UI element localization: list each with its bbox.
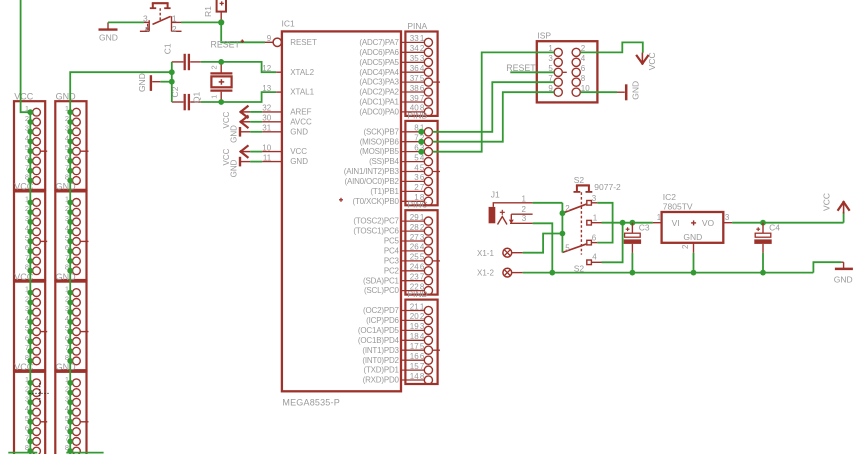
wire ISP pin5 RESET bbox=[510, 71, 554, 73]
svg-text:5: 5 bbox=[565, 244, 570, 253]
pin header PINA bbox=[401, 21, 440, 116]
svg-text:2: 2 bbox=[522, 205, 527, 214]
svg-text:GND: GND bbox=[834, 274, 853, 284]
svg-text:RESET: RESET bbox=[290, 38, 317, 47]
label GND (pin 11) bbox=[229, 159, 238, 177]
svg-text:IC2: IC2 bbox=[663, 192, 677, 202]
svg-text:(OC1B)PD4: (OC1B)PD4 bbox=[358, 336, 400, 345]
svg-text:XTAL1: XTAL1 bbox=[290, 88, 314, 97]
svg-text:(INT0)PD2: (INT0)PD2 bbox=[362, 356, 399, 365]
svg-text:(SCL)PC0: (SCL)PC0 bbox=[364, 286, 400, 295]
svg-text:3: 3 bbox=[725, 213, 730, 222]
svg-text:(ADC3)PA3: (ADC3)PA3 bbox=[359, 78, 399, 87]
terminal X1-1 bbox=[503, 248, 523, 257]
svg-text:GND: GND bbox=[229, 159, 238, 177]
svg-text:PINA: PINA bbox=[407, 21, 427, 31]
svg-text:2: 2 bbox=[210, 65, 219, 69]
svg-text:3: 3 bbox=[548, 54, 553, 63]
svg-text:27: 27 bbox=[410, 233, 419, 242]
pin header PINB bbox=[401, 110, 440, 205]
svg-text:XTAL2: XTAL2 bbox=[290, 68, 314, 77]
wire ground rail bbox=[523, 262, 842, 272]
svg-text:(ADC5)PA5: (ADC5)PA5 bbox=[359, 58, 399, 67]
wire C2 to Q1 bottom / XTAL1 bbox=[201, 92, 276, 102]
svg-text:14: 14 bbox=[410, 372, 419, 381]
svg-text:36: 36 bbox=[410, 64, 419, 73]
node XTAL1 junction bbox=[218, 99, 224, 105]
wire J1 pin1 to S2 pin2 bbox=[533, 203, 563, 213]
svg-text:1: 1 bbox=[522, 194, 527, 203]
svg-text:4: 4 bbox=[592, 253, 597, 262]
svg-text:19: 19 bbox=[410, 322, 419, 331]
svg-text:AREF: AREF bbox=[290, 108, 311, 117]
svg-text:39: 39 bbox=[410, 94, 419, 103]
svg-text:(RXD)PD0: (RXD)PD0 bbox=[363, 376, 400, 385]
svg-text:20: 20 bbox=[410, 312, 419, 321]
svg-text:GND: GND bbox=[229, 125, 238, 143]
svg-text:5: 5 bbox=[414, 153, 419, 162]
svg-text:3: 3 bbox=[592, 194, 597, 203]
label X1-1 bbox=[477, 249, 494, 258]
svg-text:9077-2: 9077-2 bbox=[594, 182, 621, 192]
label GND (pin 31) bbox=[229, 125, 238, 143]
svg-text:GND: GND bbox=[56, 272, 77, 282]
pin header PIND bbox=[401, 289, 440, 384]
node S2 pin2 junction bbox=[560, 210, 566, 216]
label IC2 bbox=[663, 192, 677, 202]
node VI net junction A bbox=[620, 220, 626, 226]
svg-text:C1: C1 bbox=[163, 43, 173, 54]
wire S2 common vertical (pins 2-5) bbox=[561, 213, 563, 252]
svg-text:33: 33 bbox=[410, 34, 419, 43]
svg-text:18: 18 bbox=[410, 332, 419, 341]
node XTAL2 junction bbox=[218, 59, 224, 65]
svg-text:29: 29 bbox=[410, 213, 419, 222]
svg-text:C3: C3 bbox=[639, 223, 650, 233]
ground GND at pin 11 bbox=[240, 157, 282, 167]
IC1 pin 9 RESET stub bbox=[265, 38, 281, 46]
svg-text:35: 35 bbox=[410, 54, 419, 63]
svg-text:21: 21 bbox=[410, 302, 419, 311]
IC1 pin 13 stub bbox=[276, 91, 282, 93]
value 7805TV bbox=[663, 202, 693, 212]
terminal X1-2 bbox=[503, 268, 523, 277]
pin header PINC bbox=[401, 200, 440, 295]
svg-text:PC2: PC2 bbox=[384, 266, 400, 275]
svg-text:X1-2: X1-2 bbox=[477, 269, 494, 278]
wire VO net to VCC bbox=[732, 212, 844, 223]
svg-text:1: 1 bbox=[657, 213, 662, 222]
label VCC (pin 32) bbox=[222, 111, 231, 128]
svg-text:2: 2 bbox=[681, 244, 690, 249]
svg-text:VO: VO bbox=[702, 218, 715, 228]
svg-text:IC1: IC1 bbox=[282, 19, 296, 29]
capacitor C2 bbox=[170, 86, 201, 110]
wire C1 to Q1 top / XTAL2 bbox=[201, 62, 276, 72]
node RESET junction bbox=[218, 19, 224, 25]
ground GND (power rail) bbox=[834, 262, 853, 284]
svg-text:(OC1A)PD5: (OC1A)PD5 bbox=[358, 326, 400, 335]
net label RESET bbox=[211, 40, 245, 50]
svg-text:(ADC6)PA6: (ADC6)PA6 bbox=[359, 48, 399, 57]
wire ISP pin2 to VCC bbox=[580, 42, 643, 52]
svg-text:7805TV: 7805TV bbox=[663, 202, 693, 212]
svg-text:GND: GND bbox=[56, 182, 77, 192]
svg-text:26: 26 bbox=[410, 243, 419, 252]
pushbutton S1 bbox=[140, 3, 182, 34]
svg-text:1: 1 bbox=[172, 13, 177, 23]
svg-text:(INT1)PD3: (INT1)PD3 bbox=[362, 346, 399, 355]
svg-text:C4: C4 bbox=[769, 223, 780, 233]
svg-text:2: 2 bbox=[414, 183, 419, 192]
svg-text:PINC: PINC bbox=[407, 200, 427, 210]
svg-text:15: 15 bbox=[410, 362, 419, 371]
svg-text:24: 24 bbox=[410, 263, 419, 272]
svg-text:GND: GND bbox=[99, 33, 118, 43]
svg-text:4: 4 bbox=[414, 163, 419, 172]
svg-text:17: 17 bbox=[410, 342, 419, 351]
wire C1-C2 left vertical bbox=[171, 62, 173, 102]
capacitor C3 bbox=[624, 223, 650, 273]
pin header ISP bbox=[537, 30, 598, 102]
svg-text:1: 1 bbox=[593, 214, 598, 223]
pin header GND block 1 bbox=[55, 91, 88, 189]
wire S2 pin3 to pin6 bbox=[591, 203, 612, 243]
svg-text:(ICP)PD6: (ICP)PD6 bbox=[366, 316, 399, 325]
svg-text:(TXD)PD1: (TXD)PD1 bbox=[364, 366, 400, 375]
pin header VCC block 3 bbox=[14, 272, 47, 370]
wire S1 pin3 to GND bbox=[108, 21, 144, 23]
svg-text:VCC: VCC bbox=[647, 52, 657, 70]
switch S2 9077-2 bbox=[562, 175, 621, 273]
ground GND (crystal cluster) bbox=[137, 73, 160, 92]
node PB6 junction bbox=[418, 139, 424, 145]
svg-text:GND: GND bbox=[56, 91, 77, 101]
svg-text:6: 6 bbox=[581, 64, 586, 73]
svg-text:(AIN1/INT2)PB3: (AIN1/INT2)PB3 bbox=[344, 167, 400, 176]
node ground rail C3 junction bbox=[630, 270, 636, 276]
svg-text:PINB: PINB bbox=[407, 110, 427, 120]
wire J1 pin3 to ground rail bbox=[533, 223, 553, 272]
svg-text:VI: VI bbox=[672, 218, 680, 228]
supply VCC arrow at pin 10 bbox=[241, 146, 282, 157]
label VCC (output) bbox=[822, 193, 832, 211]
svg-text:VCC: VCC bbox=[14, 91, 34, 101]
capacitor C4 bbox=[754, 223, 780, 273]
wire S2 pin1 to regulator input bbox=[591, 222, 653, 224]
svg-text:PC4: PC4 bbox=[384, 247, 400, 256]
svg-text:ISP: ISP bbox=[537, 30, 551, 40]
pin header GND block 2 bbox=[55, 182, 88, 280]
node PB7 junction bbox=[418, 129, 424, 135]
svg-text:X1-1: X1-1 bbox=[477, 249, 494, 258]
svg-text:3: 3 bbox=[143, 13, 148, 23]
node ground rail IC2 junction bbox=[691, 270, 697, 276]
svg-text:MEGA8535-P: MEGA8535-P bbox=[282, 398, 340, 408]
svg-text:GND: GND bbox=[683, 232, 702, 242]
svg-text:3: 3 bbox=[414, 173, 419, 182]
svg-text:J1: J1 bbox=[491, 189, 500, 199]
value MEGA8535-P bbox=[282, 398, 340, 408]
wire ISP pin10 to GND bbox=[580, 91, 617, 93]
svg-text:(ADC1)PA1: (ADC1)PA1 bbox=[359, 98, 399, 107]
svg-text:(TOSC2)PC7: (TOSC2)PC7 bbox=[353, 217, 399, 226]
svg-text:37: 37 bbox=[410, 74, 419, 83]
svg-text:GND: GND bbox=[290, 127, 308, 136]
ground GND at pin 31 bbox=[240, 127, 282, 137]
wire ISP pin9 MISO to PB6 bbox=[433, 92, 555, 142]
svg-text:PC3: PC3 bbox=[384, 257, 400, 266]
net label RESET (ISP) bbox=[506, 63, 536, 73]
label IC1 bbox=[282, 19, 296, 29]
wire X1-1 to S2 common bbox=[523, 234, 563, 253]
node VI net junction B (C3) bbox=[630, 220, 636, 226]
svg-text:(OC2)PD7: (OC2)PD7 bbox=[363, 306, 399, 315]
IC1 right pin names bbox=[339, 38, 400, 385]
svg-text:(ADC7)PA7: (ADC7)PA7 bbox=[359, 38, 399, 47]
svg-text:3: 3 bbox=[522, 214, 527, 223]
svg-text:8: 8 bbox=[581, 74, 586, 83]
svg-text:13: 13 bbox=[262, 84, 271, 93]
svg-text:GND: GND bbox=[56, 362, 77, 372]
supply VCC arrow (output) bbox=[838, 201, 849, 214]
svg-text:2: 2 bbox=[172, 24, 177, 34]
svg-text:(ADC2)PA2: (ADC2)PA2 bbox=[359, 88, 399, 97]
pin header GND block 3 bbox=[55, 272, 88, 370]
svg-text:(MOSI)PB5: (MOSI)PB5 bbox=[360, 147, 400, 156]
wire IC2 GND pin to rail bbox=[693, 253, 695, 273]
svg-text:GND: GND bbox=[290, 157, 308, 166]
label GND (ISP) bbox=[631, 81, 641, 100]
pin header VCC block 1 bbox=[14, 91, 47, 189]
node PB5 junction bbox=[418, 149, 424, 155]
svg-text:(ADC0)PA0: (ADC0)PA0 bbox=[359, 108, 399, 117]
IC1 pin 12 stub bbox=[276, 71, 282, 73]
IC1 left pin names and numbers bbox=[262, 34, 317, 166]
dc jack J1 bbox=[489, 194, 533, 224]
regulator IC2 7805TV bbox=[653, 212, 732, 253]
svg-text:2: 2 bbox=[565, 204, 570, 213]
svg-text:(AIN0/OC0)PB2: (AIN0/OC0)PB2 bbox=[344, 177, 399, 186]
svg-text:1: 1 bbox=[210, 95, 219, 99]
wire to GND symbol bbox=[160, 81, 172, 83]
node ground rail C4 junction bbox=[760, 270, 766, 276]
svg-text:(TOSC1)PC6: (TOSC1)PC6 bbox=[353, 227, 399, 236]
node ground rail J1 junction bbox=[549, 270, 555, 276]
ground GND (ISP) bbox=[617, 84, 626, 100]
node VO C4 junction bbox=[760, 220, 766, 226]
svg-text:25: 25 bbox=[410, 253, 419, 262]
svg-text:GND: GND bbox=[631, 81, 641, 100]
wire S1 pin1 to R1/RESET node bbox=[181, 21, 221, 23]
svg-text:12: 12 bbox=[262, 64, 271, 73]
svg-text:PIND: PIND bbox=[407, 289, 427, 299]
svg-text:(MISO)PB6: (MISO)PB6 bbox=[360, 137, 400, 146]
pin header GND block 4 bbox=[55, 362, 88, 454]
svg-text:R1: R1 bbox=[203, 6, 213, 17]
supply VCC arrow at pin 30 (AVCC) bbox=[241, 116, 282, 127]
wire RESET to IC1 pin 9 bbox=[221, 22, 265, 42]
svg-text:(SCK)PB7: (SCK)PB7 bbox=[363, 127, 399, 136]
resistor R1 bbox=[203, 0, 226, 20]
svg-text:28: 28 bbox=[410, 223, 419, 232]
pin header VCC block 4 bbox=[14, 362, 47, 454]
svg-text:(T1)PB1: (T1)PB1 bbox=[370, 187, 399, 196]
svg-text:GND: GND bbox=[137, 73, 147, 92]
svg-text:PC5: PC5 bbox=[384, 237, 400, 246]
wire ISP pin1 MOSI to PB5 bbox=[433, 52, 555, 151]
crystal Q1 bbox=[191, 62, 232, 103]
svg-text:VCC: VCC bbox=[822, 193, 832, 211]
svg-text:6: 6 bbox=[592, 233, 597, 242]
dotted origin crosshair bbox=[29, 383, 50, 403]
svg-text:(ADC4)PA4: (ADC4)PA4 bbox=[359, 68, 399, 77]
node C1/C2 GND-column tap bbox=[169, 69, 175, 75]
svg-text:34: 34 bbox=[410, 44, 419, 53]
supply VCC arrow (ISP) bbox=[637, 53, 648, 65]
pin header VCC block 2 bbox=[14, 182, 47, 280]
ic IC1 ATMEGA8535 body bbox=[282, 31, 401, 391]
svg-text:38: 38 bbox=[410, 84, 419, 93]
svg-text:RESET: RESET bbox=[506, 63, 536, 73]
wire VCC bus (left header column) bbox=[8, 0, 37, 454]
node C1/C2 GND-symbol tap bbox=[169, 79, 175, 85]
label X1-2 bbox=[477, 269, 494, 278]
svg-text:4: 4 bbox=[145, 24, 150, 34]
supply VCC arrow at pin 32 (AREF) bbox=[241, 106, 282, 117]
capacitor C1 bbox=[163, 43, 201, 70]
svg-text:AVCC: AVCC bbox=[290, 117, 312, 126]
label VCC (ISP) bbox=[647, 52, 657, 70]
node S2 X1-1 tap junction bbox=[560, 231, 566, 237]
svg-text:Q1: Q1 bbox=[191, 91, 201, 103]
svg-text:RESET: RESET bbox=[211, 40, 241, 50]
label J1 bbox=[491, 189, 500, 199]
wire S2 pin4 drop bbox=[591, 223, 622, 263]
svg-text:4: 4 bbox=[581, 54, 586, 63]
svg-text:(T0/XCK)PB0: (T0/XCK)PB0 bbox=[353, 197, 400, 206]
svg-text:(SS)PB4: (SS)PB4 bbox=[369, 157, 399, 166]
label VCC (pin 10) bbox=[222, 148, 231, 165]
wire GND bus (right header column) bbox=[66, 72, 172, 454]
ground GND (at S1) bbox=[99, 22, 118, 42]
wire ISP pin7 SCK to PB7 bbox=[433, 82, 555, 132]
svg-text:VCC: VCC bbox=[290, 147, 307, 156]
svg-text:S2: S2 bbox=[574, 175, 585, 185]
svg-text:23: 23 bbox=[410, 273, 419, 282]
svg-text:16: 16 bbox=[410, 352, 419, 361]
svg-text:(SDA)PC1: (SDA)PC1 bbox=[363, 276, 399, 285]
